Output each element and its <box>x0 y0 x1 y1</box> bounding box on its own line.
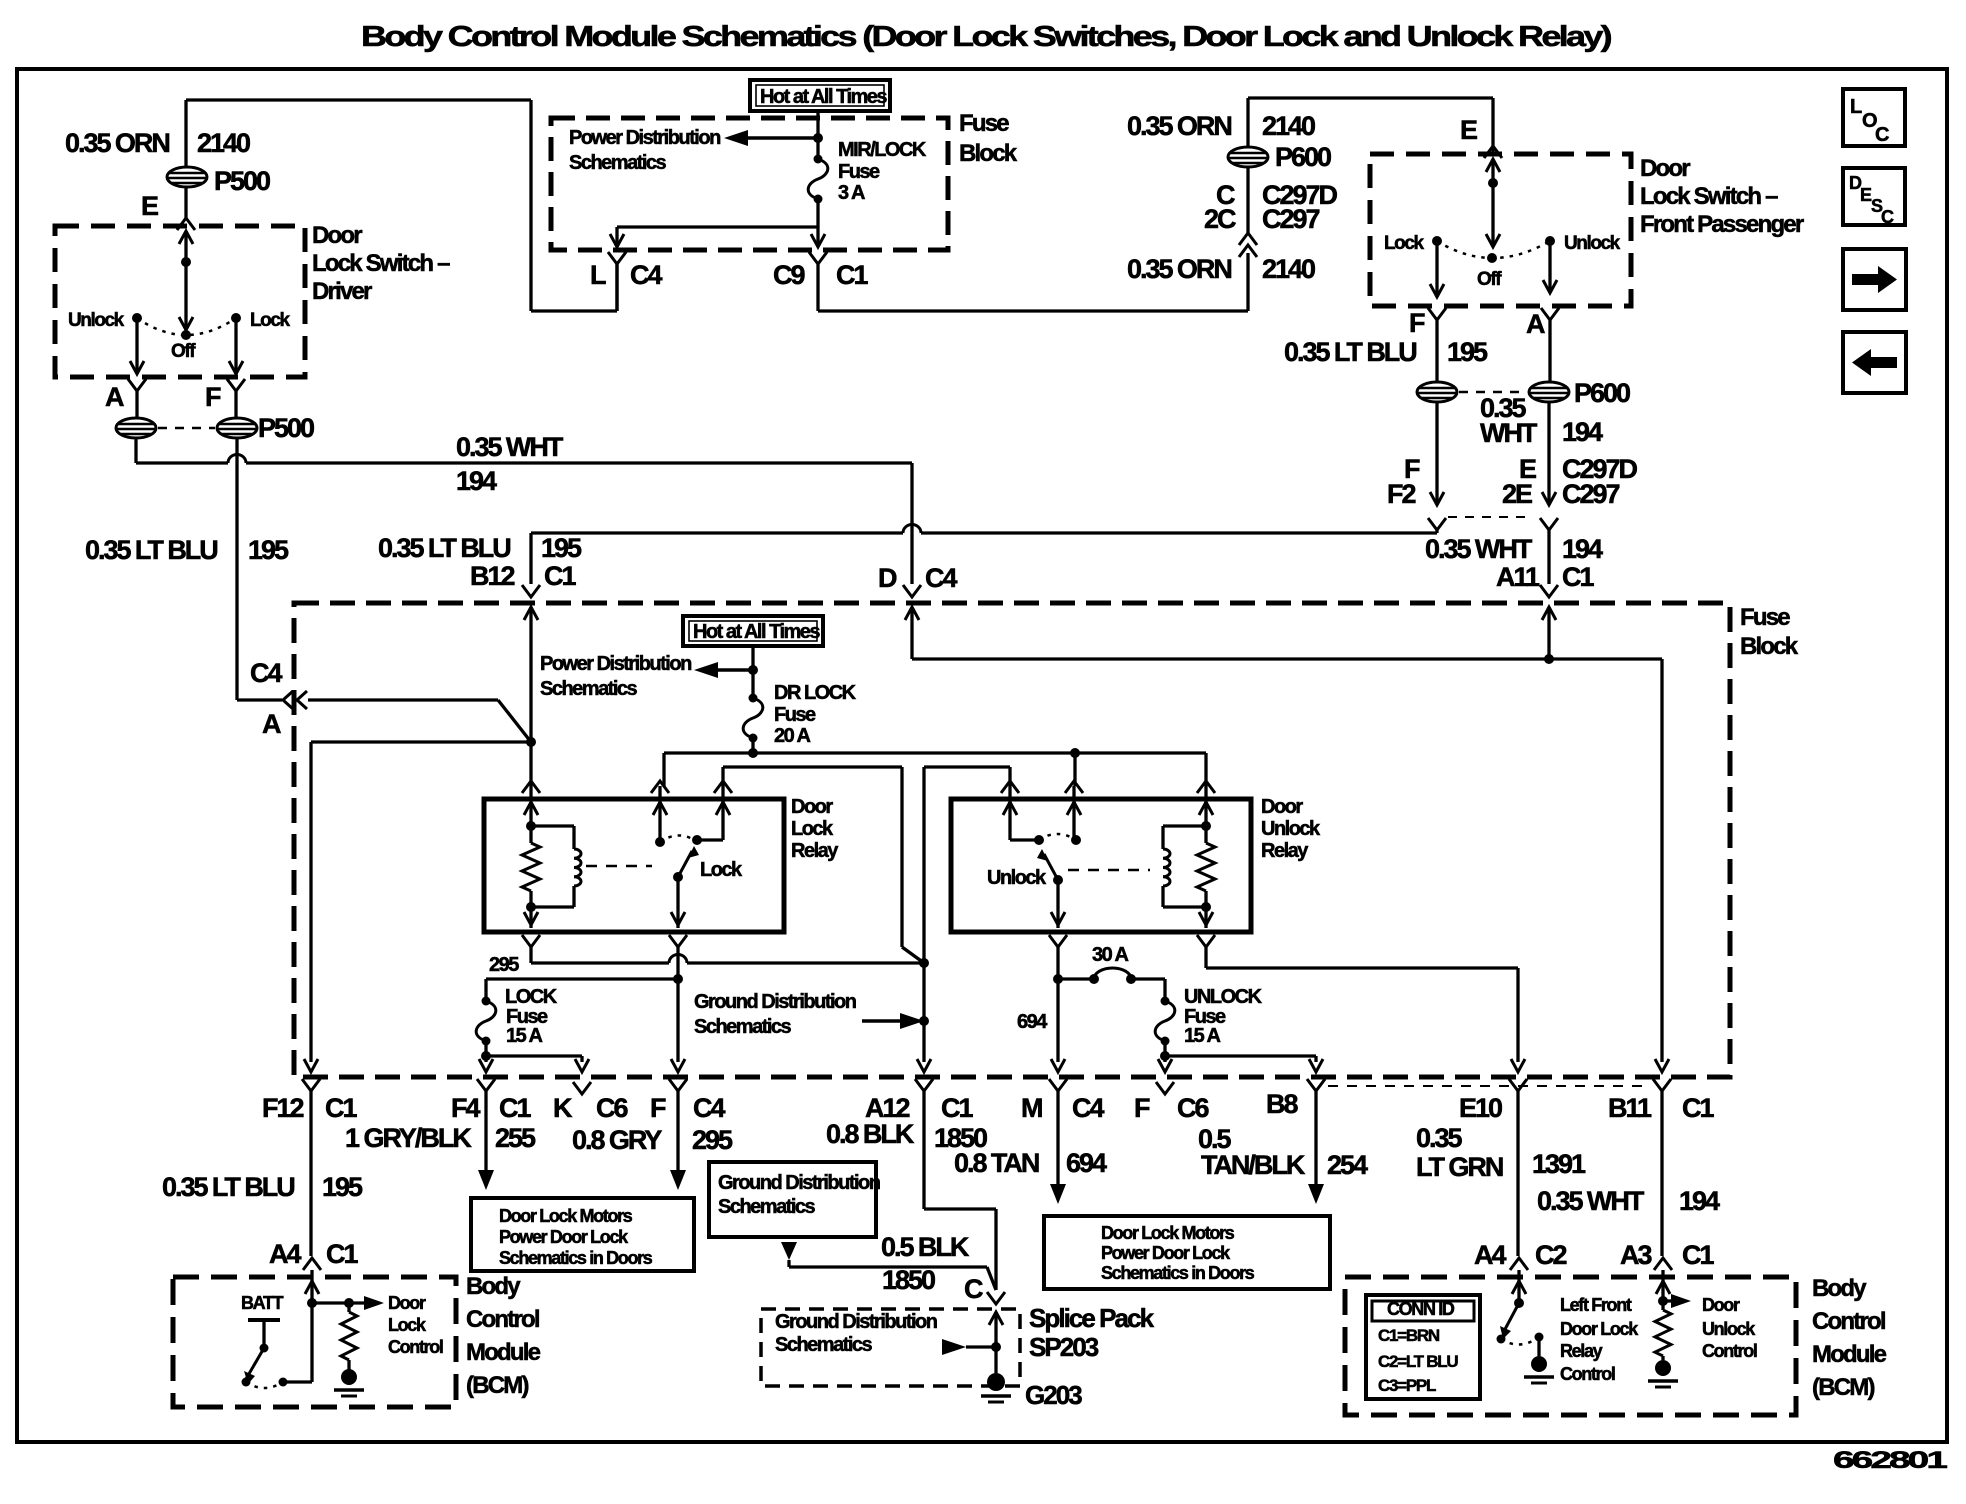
label 30 A <box>1092 944 1129 966</box>
svg-text:Schematics in Doors: Schematics in Doors <box>1101 1263 1255 1283</box>
label C4 left edge <box>250 658 282 688</box>
svg-text:Control: Control <box>466 1306 539 1333</box>
unlock relay coil entry chevron <box>1197 781 1215 826</box>
label 0.35 WHT A11 <box>1425 534 1533 564</box>
label 194 col <box>1562 417 1603 447</box>
svg-text:UNLOCK: UNLOCK <box>1184 986 1263 1008</box>
next-page arrow icon box <box>1843 249 1906 310</box>
label pin A driver <box>105 382 124 412</box>
svg-text:Module: Module <box>1812 1341 1887 1368</box>
svg-text:694: 694 <box>1066 1148 1107 1178</box>
svg-text:Off: Off <box>171 341 196 362</box>
unlock relay common output <box>1051 880 1065 928</box>
svg-text:Hot at All Times: Hot at All Times <box>760 86 887 108</box>
door unlock relay box <box>951 799 1251 932</box>
connector chevron A passenger <box>1541 308 1559 382</box>
label Lock relay contact <box>700 859 743 881</box>
bcm left switch wire <box>283 1380 312 1383</box>
branch to lock relay NO <box>723 767 924 963</box>
fuse block 1 dashed box <box>551 118 948 250</box>
wire 194 WHT horizontal <box>136 438 912 584</box>
label A4 C1 left <box>269 1239 358 1269</box>
unlock relay NC entry <box>1065 781 1083 845</box>
svg-text:C1: C1 <box>325 1093 357 1123</box>
connector chevron L <box>608 252 626 311</box>
svg-text:WHT: WHT <box>1480 418 1538 448</box>
fuse DR LOCK 20A <box>743 694 763 743</box>
unlock relay arm arc <box>1039 834 1076 840</box>
lock relay coil exit chevron <box>522 935 540 963</box>
unlock relay linkage dashed <box>1068 869 1150 872</box>
svg-text:G203: G203 <box>1025 1380 1082 1410</box>
connector D entry <box>903 585 1662 664</box>
svg-text:C1: C1 <box>1682 1093 1714 1123</box>
title <box>361 21 1612 53</box>
label pin C C297D <box>1216 180 1337 210</box>
label pin E passenger <box>1460 115 1477 145</box>
svg-text:BATT: BATT <box>241 1293 284 1313</box>
svg-text:0.8 BLK: 0.8 BLK <box>826 1119 915 1149</box>
wire 295 internal <box>531 954 924 963</box>
svg-text:L: L <box>1850 96 1862 118</box>
label Door Unlock Relay <box>1261 796 1321 862</box>
svg-text:Unlock: Unlock <box>68 310 125 331</box>
connector F C4 <box>650 1079 725 1190</box>
label B12 <box>470 561 514 591</box>
label 0.35 LT BLU mid <box>85 535 217 565</box>
connector E10 <box>1459 1079 1527 1256</box>
connector C297 inline chevrons <box>1239 233 1257 257</box>
svg-text:2140: 2140 <box>1262 254 1315 284</box>
svg-text:0.35: 0.35 <box>1416 1123 1462 1153</box>
label Fuse Block 1 <box>959 110 1018 167</box>
label 194 top <box>456 466 497 496</box>
prev-page arrow icon box <box>1843 332 1906 393</box>
wire to lock fuse <box>486 979 678 1001</box>
label Door Lock Relay <box>791 796 839 862</box>
wire to unlock fuse <box>1163 979 1166 1001</box>
label 295 internal <box>489 954 519 976</box>
label pin L <box>590 260 606 290</box>
svg-text:A: A <box>1526 309 1545 339</box>
connector B11 C1 <box>1608 1079 1714 1256</box>
splice P500 F <box>217 418 257 438</box>
svg-text:Body: Body <box>1812 1275 1867 1302</box>
svg-text:Driver: Driver <box>312 278 372 305</box>
label 2140 pass 1 <box>1262 111 1315 141</box>
svg-text:254: 254 <box>1327 1150 1368 1180</box>
connector F4 C1 <box>451 1079 531 1190</box>
wire fuse1 outputs <box>610 199 825 247</box>
svg-text:0.35 WHT: 0.35 WHT <box>1425 534 1533 564</box>
connector K C6 <box>553 1082 628 1123</box>
label Door Unlock Control <box>1702 1295 1757 1361</box>
label 0.5 BLK 1850 splice <box>881 1232 983 1304</box>
label Left Front Door Lock Relay Control <box>1560 1295 1639 1384</box>
svg-text:A3: A3 <box>1620 1240 1652 1270</box>
svg-text:3 A: 3 A <box>838 182 865 204</box>
label 0.5 TAN/BLK 254 <box>1198 1124 1368 1180</box>
svg-text:194: 194 <box>1562 417 1603 447</box>
svg-text:C1: C1 <box>1682 1240 1714 1270</box>
label 2140 pass 2 <box>1262 254 1315 284</box>
svg-text:255: 255 <box>495 1123 536 1153</box>
svg-text:Lock Switch –: Lock Switch – <box>312 250 450 277</box>
label pin C9 <box>773 260 805 290</box>
lock relay resistor <box>522 802 540 912</box>
svg-text:Block: Block <box>959 140 1018 167</box>
wire fuse2 to bus <box>748 738 758 758</box>
ground distribution schematics box <box>709 1162 880 1237</box>
svg-text:C297: C297 <box>1262 204 1319 234</box>
bcm right connector A3-C1 <box>1654 1258 1672 1306</box>
svg-text:C1: C1 <box>1562 562 1594 592</box>
bcm door unlock control arrow <box>1663 1294 1691 1308</box>
svg-text:Block: Block <box>1740 633 1799 660</box>
svg-text:A11: A11 <box>1496 562 1540 592</box>
door lock motors box 1 <box>471 1198 694 1271</box>
svg-text:Off: Off <box>1477 269 1502 290</box>
bcm left dashed box <box>173 1277 456 1407</box>
bcm batt terminal <box>241 1293 284 1353</box>
svg-text:Lock: Lock <box>388 1315 427 1335</box>
svg-text:20 A: 20 A <box>774 725 811 747</box>
bcm left resistor to ground <box>334 1303 364 1396</box>
svg-text:Power Distribution: Power Distribution <box>569 127 720 149</box>
svg-text:Relay: Relay <box>791 840 839 862</box>
label pin D <box>878 563 897 593</box>
svg-text:0.35 ORN: 0.35 ORN <box>65 128 169 158</box>
label Fuse Block main <box>1740 604 1799 660</box>
label P600 bottom <box>1574 378 1630 408</box>
svg-text:Door: Door <box>1702 1295 1740 1315</box>
svg-text:Ground Distribution: Ground Distribution <box>694 991 856 1013</box>
label 0.35 LT BLU B12 <box>378 533 510 563</box>
svg-text:Relay: Relay <box>1560 1341 1603 1361</box>
label Splice Pack SP203 <box>1029 1303 1155 1362</box>
circuit breaker 30A <box>1058 968 1165 984</box>
label Ground Distribution Schematics internal <box>694 991 856 1038</box>
svg-text:Schematics in Doors: Schematics in Doors <box>499 1248 653 1268</box>
label P600 top <box>1275 142 1331 172</box>
connector arrows C4-A <box>283 691 307 709</box>
splice P600 F <box>1417 382 1457 402</box>
svg-text:F2: F2 <box>1387 479 1415 509</box>
label DR LOCK Fuse 20A <box>774 682 857 747</box>
lock fuse outputs <box>479 1041 589 1072</box>
svg-text:0.35 LT BLU: 0.35 LT BLU <box>162 1172 294 1202</box>
svg-text:195: 195 <box>541 533 582 563</box>
connector F C6 <box>1134 1082 1209 1123</box>
door lock relay box <box>484 799 784 932</box>
passenger switch unlock output <box>1543 241 1557 293</box>
label P500 top <box>214 166 270 196</box>
label 0.35 WHT col <box>1480 393 1538 448</box>
label 1 GRY/BLK 255 <box>345 1123 536 1153</box>
wire hot2 down <box>748 646 758 698</box>
passenger switch unlock contact <box>1545 233 1621 254</box>
LOC icon box <box>1843 89 1905 146</box>
P500 link dashed <box>158 427 215 430</box>
label LOCK Fuse 15A <box>505 986 558 1047</box>
svg-text:LT GRN: LT GRN <box>1416 1152 1503 1182</box>
svg-text:295: 295 <box>489 954 519 976</box>
svg-text:Lock: Lock <box>1384 233 1425 254</box>
label pin F driver <box>205 382 221 412</box>
svg-text:B8: B8 <box>1266 1089 1298 1119</box>
svg-text:C4: C4 <box>250 658 282 688</box>
svg-text:A4: A4 <box>269 1239 301 1269</box>
svg-text:Unlock: Unlock <box>987 867 1047 889</box>
svg-text:194: 194 <box>1562 534 1603 564</box>
wire 2140 ORN passenger <box>1248 98 1493 235</box>
lock relay switch arm <box>673 846 699 882</box>
branch to unlock relay NC <box>917 767 1010 1072</box>
svg-text:2E: 2E <box>1502 479 1532 509</box>
fuse block main dashed box <box>294 603 1730 1077</box>
svg-text:LOCK: LOCK <box>505 986 558 1008</box>
svg-text:SP203: SP203 <box>1029 1332 1099 1362</box>
svg-text:F: F <box>1134 1093 1150 1123</box>
svg-text:A4: A4 <box>1474 1240 1506 1270</box>
svg-text:Power Distribution: Power Distribution <box>540 653 691 675</box>
svg-text:C1: C1 <box>544 561 576 591</box>
svg-text:Body Control Module Schematics: Body Control Module Schematics (Door Loc… <box>361 21 1612 53</box>
label Ground Distribution Schematics splice <box>775 1311 937 1356</box>
label UNLOCK Fuse 15A <box>1184 986 1263 1047</box>
passenger switch off arc <box>1437 241 1550 290</box>
svg-text:2C: 2C <box>1204 204 1236 234</box>
DESC icon box <box>1843 168 1905 227</box>
lock relay NC entry <box>651 781 669 847</box>
label C4 top <box>630 260 662 290</box>
label C4 D <box>925 563 957 593</box>
label 195 B12 <box>541 533 582 563</box>
wire hot to fuse 1 <box>813 111 823 159</box>
passenger switch common arm <box>1486 183 1500 263</box>
svg-text:L: L <box>590 260 606 290</box>
svg-text:Schematics: Schematics <box>694 1016 792 1038</box>
label 694 internal <box>1017 1011 1048 1033</box>
svg-text:C: C <box>1875 124 1889 146</box>
svg-text:K: K <box>553 1093 573 1123</box>
svg-text:30 A: 30 A <box>1092 944 1129 966</box>
power distribution arrow 1 <box>724 130 818 146</box>
connector chevron F driver <box>227 379 245 418</box>
svg-text:Power Door Lock: Power Door Lock <box>499 1227 629 1247</box>
label Body Control Module right <box>1812 1275 1887 1401</box>
svg-text:0.35 ORN: 0.35 ORN <box>1127 111 1231 141</box>
driver switch unlock output wire <box>130 318 144 374</box>
label 2C C297 <box>1204 204 1319 234</box>
unlock relay coil <box>1163 826 1206 907</box>
svg-text:Door: Door <box>791 796 833 818</box>
svg-text:C: C <box>1881 207 1894 227</box>
label 0.35 LT BLU 195 bcm <box>162 1172 363 1202</box>
svg-text:Door Lock Motors: Door Lock Motors <box>499 1206 633 1226</box>
svg-text:Lock: Lock <box>791 818 834 840</box>
passenger switch lock contact <box>1384 233 1442 254</box>
svg-text:C2=LT BLU: C2=LT BLU <box>1378 1352 1458 1371</box>
ground distribution arrow internal <box>862 1013 924 1029</box>
svg-text:1391: 1391 <box>1532 1149 1586 1179</box>
svg-text:194: 194 <box>456 466 497 496</box>
splice P600 A <box>1529 382 1569 402</box>
label pin F F2 <box>1387 454 1420 509</box>
svg-text:Module: Module <box>466 1339 541 1366</box>
passenger switch E entry <box>1484 146 1502 188</box>
driver switch E entry arrow <box>179 231 193 267</box>
svg-text:Door: Door <box>1640 155 1690 182</box>
svg-text:Lock: Lock <box>250 310 291 331</box>
svg-text:195: 195 <box>1447 337 1488 367</box>
connector chevron C9 <box>809 252 827 311</box>
conn id table <box>1366 1295 1480 1399</box>
svg-text:1850: 1850 <box>882 1265 935 1295</box>
label Unlock relay contact <box>987 867 1047 889</box>
unlock relay coil exit chevron <box>1197 935 1525 1072</box>
wire to F12 <box>304 742 531 1072</box>
svg-text:DR LOCK: DR LOCK <box>774 682 857 704</box>
svg-text:TAN/BLK: TAN/BLK <box>1201 1150 1306 1180</box>
label pin E 2E <box>1502 454 1536 509</box>
bcm right resistor to ground <box>1648 1301 1678 1387</box>
power distribution arrow 2 <box>694 662 753 678</box>
svg-text:Fuse: Fuse <box>1740 604 1790 631</box>
svg-text:Power Door Lock: Power Door Lock <box>1101 1243 1231 1263</box>
connector F12 C1 <box>262 1079 357 1256</box>
splice pack internal arrow <box>942 1339 996 1355</box>
svg-text:Door Lock Motors: Door Lock Motors <box>1101 1223 1235 1243</box>
label 2140 driver <box>197 128 250 158</box>
svg-text:15 A: 15 A <box>1184 1025 1221 1047</box>
svg-text:Control: Control <box>1560 1364 1615 1384</box>
label 0.35 WHT top <box>456 432 564 462</box>
label 0.35 LT GRN 1391 <box>1416 1123 1586 1182</box>
svg-text:C2: C2 <box>1535 1240 1566 1270</box>
svg-text:C1: C1 <box>941 1093 973 1123</box>
svg-text:Control: Control <box>1702 1341 1757 1361</box>
passenger switch lock output <box>1430 241 1444 297</box>
connector A12 C1 <box>865 1079 996 1290</box>
label Door Lock Switch Front Passenger <box>1640 155 1804 238</box>
wire 2140 ORN driver top <box>186 100 617 311</box>
lock relay coil <box>531 826 581 907</box>
svg-text:C6: C6 <box>596 1093 628 1123</box>
label A3 C1 right <box>1620 1240 1714 1270</box>
label 0.35 WHT 194 bcm <box>1537 1186 1720 1216</box>
svg-text:A: A <box>262 709 281 739</box>
svg-text:M: M <box>1021 1093 1042 1123</box>
svg-text:C6: C6 <box>1177 1093 1209 1123</box>
svg-text:Door: Door <box>388 1293 426 1313</box>
unlock relay switch arm <box>1037 849 1063 885</box>
svg-text:C4: C4 <box>693 1093 725 1123</box>
label Body Control Module left <box>466 1273 541 1399</box>
label Door Lock Switch Driver <box>312 222 450 305</box>
svg-text:1 GRY/BLK: 1 GRY/BLK <box>345 1123 472 1153</box>
connector chevron F passenger <box>1428 308 1446 382</box>
label Door Lock Control <box>388 1293 443 1357</box>
label C1 A11 <box>1562 562 1594 592</box>
svg-text:0.35 ORN: 0.35 ORN <box>1127 254 1231 284</box>
lock relay coil entry chevron <box>522 781 540 815</box>
label P500 bottom <box>258 413 314 443</box>
bcm door lock control arrow <box>312 1296 384 1310</box>
wire 2E 194 <box>1540 402 1558 584</box>
svg-text:Left Front: Left Front <box>1560 1295 1632 1315</box>
label A11 <box>1496 562 1540 592</box>
svg-text:Fuse: Fuse <box>838 161 880 183</box>
svg-text:295: 295 <box>692 1125 733 1155</box>
connector M C4 <box>1021 1079 1104 1204</box>
wire C4-A to junction <box>308 700 531 742</box>
wire 195 LT BLU driver <box>237 438 282 700</box>
driver switch off arc <box>137 318 236 362</box>
svg-text:2140: 2140 <box>1262 111 1315 141</box>
svg-text:2140: 2140 <box>197 128 250 158</box>
fuse UNLOCK 15A <box>1155 997 1175 1046</box>
wire 194 to B11 <box>1655 659 1669 1072</box>
bcm right switch arc <box>1501 1337 1539 1345</box>
svg-text:C1: C1 <box>499 1093 531 1123</box>
svg-text:D: D <box>878 563 897 593</box>
bcm left connector A4 <box>303 1258 321 1382</box>
svg-text:Unlock: Unlock <box>1702 1319 1756 1339</box>
svg-text:0.5 BLK: 0.5 BLK <box>881 1232 970 1262</box>
svg-text:MIR/LOCK: MIR/LOCK <box>838 139 927 161</box>
splice P500 top <box>167 167 207 187</box>
unlock fuse outputs <box>1158 1041 1323 1072</box>
svg-text:CONN ID: CONN ID <box>1387 1299 1455 1319</box>
svg-text:194: 194 <box>1679 1186 1720 1216</box>
unlock relay resistor <box>1197 821 1215 912</box>
label 0.35 ORN pass 2 <box>1127 254 1231 284</box>
label 195 mid <box>248 535 289 565</box>
svg-text:0.35 LT BLU: 0.35 LT BLU <box>378 533 510 563</box>
label 0.35 ORN pass 1 <box>1127 111 1231 141</box>
label 0.8 TAN 694 <box>954 1148 1107 1178</box>
svg-text:P500: P500 <box>258 413 314 443</box>
diagram number 662801 <box>1833 1447 1947 1474</box>
svg-text:Front Passenger: Front Passenger <box>1640 211 1804 238</box>
ground box output arrow <box>781 1242 996 1290</box>
svg-text:662801: 662801 <box>1833 1447 1947 1474</box>
bcm right dashed box <box>1345 1277 1796 1415</box>
svg-text:Fuse: Fuse <box>774 704 816 726</box>
svg-text:Ground Distribution: Ground Distribution <box>718 1172 880 1194</box>
svg-text:Door Lock: Door Lock <box>1560 1319 1639 1339</box>
label pin E driver <box>141 191 158 221</box>
svg-text:P500: P500 <box>214 166 270 196</box>
ground G203 <box>981 1373 1011 1402</box>
svg-text:Unlock: Unlock <box>1564 233 1621 254</box>
unlock relay coil output <box>1199 907 1213 928</box>
connector A11 entry <box>1540 585 1558 659</box>
lock relay common output <box>671 877 685 928</box>
svg-text:195: 195 <box>322 1172 363 1202</box>
driver switch unlock contact <box>68 310 142 331</box>
svg-text:694: 694 <box>1017 1011 1048 1033</box>
svg-text:Control: Control <box>1812 1308 1885 1335</box>
relay power bus <box>664 748 1206 786</box>
splice P600 top <box>1228 147 1268 167</box>
label 0.8 BLK 1850 <box>826 1119 987 1153</box>
svg-text:0.35 LT BLU: 0.35 LT BLU <box>85 535 217 565</box>
driver switch lock contact <box>231 310 291 331</box>
svg-text:F: F <box>1409 308 1425 338</box>
svg-text:F4: F4 <box>451 1093 480 1123</box>
